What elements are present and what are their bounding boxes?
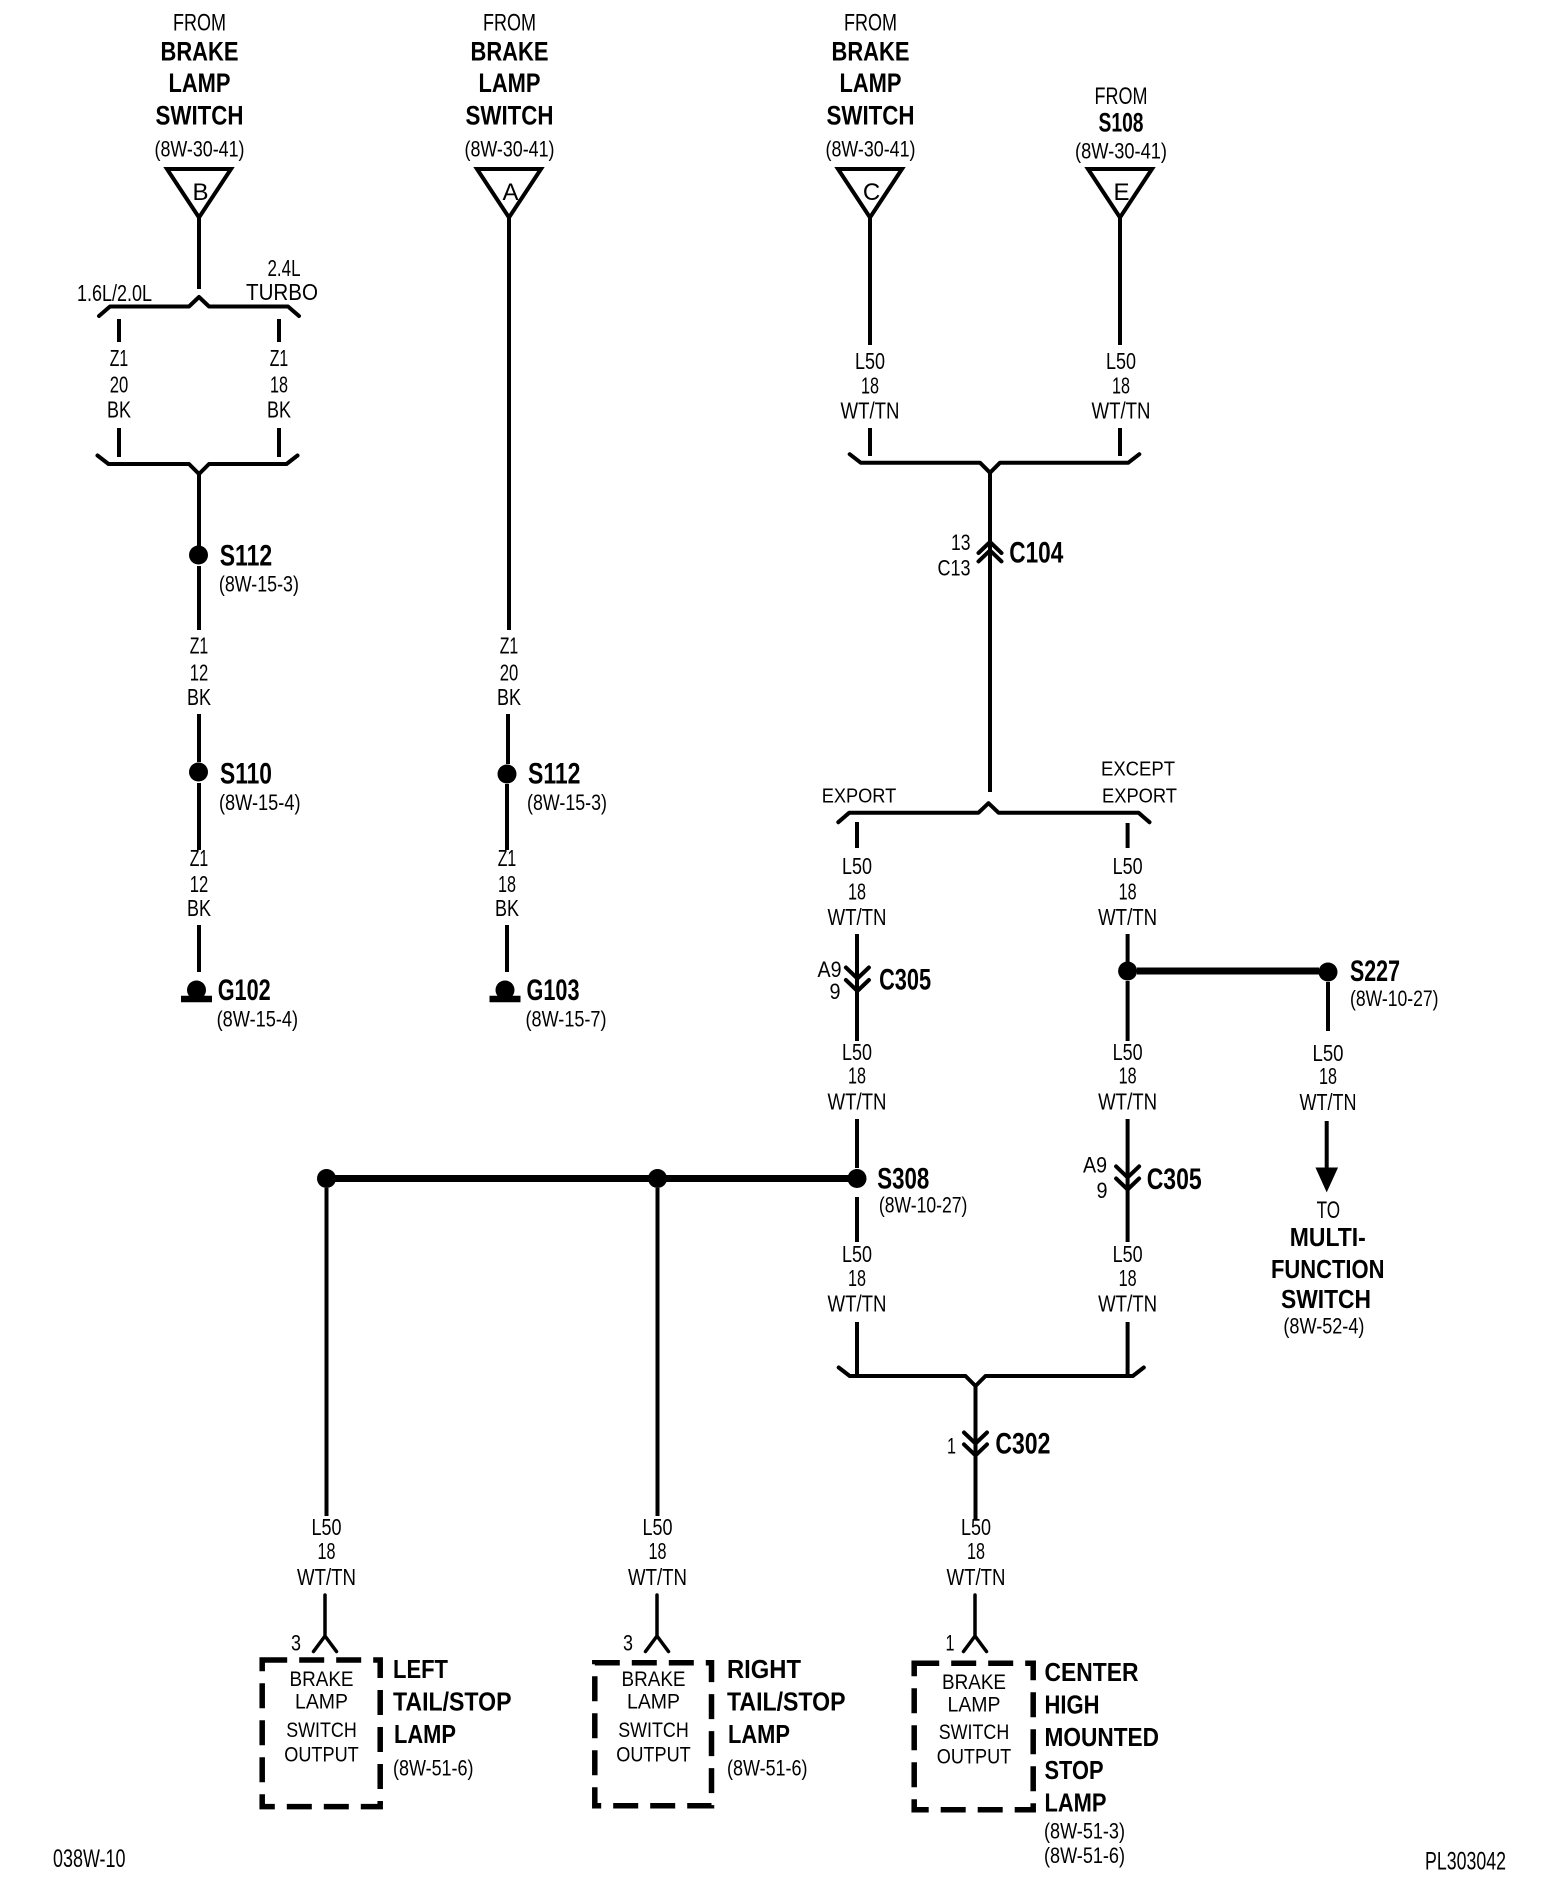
wire S227 down bbox=[1326, 982, 1330, 1031]
svg-text:C305: C305 bbox=[1147, 1163, 1202, 1196]
svg-text:L50: L50 bbox=[961, 1514, 991, 1540]
label BRAKE LAMP SWITCH OUTPUT (centre box) bbox=[937, 1670, 1012, 1769]
svg-text:OUTPUT: OUTPUT bbox=[616, 1743, 691, 1767]
wire left branch upper stub bbox=[117, 319, 121, 342]
svg-text:(8W-51-3): (8W-51-3) bbox=[1044, 1819, 1125, 1844]
svg-text:9: 9 bbox=[830, 979, 841, 1004]
label L50 18 WT/TN S227 branch bbox=[1300, 1040, 1357, 1115]
svg-text:WT/TN: WT/TN bbox=[628, 1564, 687, 1590]
wire to splice S112 col A bbox=[506, 714, 510, 764]
wire right branch lower stub bbox=[277, 428, 281, 457]
wire left junction to S308 (thick) bbox=[327, 1175, 851, 1182]
wire C below triangle bbox=[868, 218, 872, 346]
svg-text:BK: BK bbox=[495, 895, 520, 921]
label L50 18 WT/TN except upper bbox=[1098, 853, 1157, 930]
svg-text:L50: L50 bbox=[1113, 853, 1143, 879]
svg-text:1: 1 bbox=[947, 1433, 956, 1458]
svg-text:FUNCTION: FUNCTION bbox=[1271, 1256, 1385, 1284]
wire to ground G103 bbox=[505, 925, 509, 972]
label L50 18 WT/TN left tail bbox=[297, 1514, 356, 1590]
svg-text:A9: A9 bbox=[1083, 1152, 1107, 1177]
label L50 18 WT/TN centre bottom bbox=[947, 1514, 1006, 1590]
svg-text:S112: S112 bbox=[220, 540, 273, 573]
svg-text:TAIL/STOP: TAIL/STOP bbox=[393, 1689, 512, 1717]
wire A long drop bbox=[507, 218, 511, 631]
svg-text:BK: BK bbox=[107, 397, 132, 423]
svg-text:LAMP: LAMP bbox=[295, 1690, 348, 1714]
svg-text:EXPORT: EXPORT bbox=[1102, 786, 1177, 808]
svg-text:BRAKE: BRAKE bbox=[290, 1667, 354, 1691]
svg-text:18: 18 bbox=[270, 372, 288, 398]
label L50 18 WT/TN except lower bbox=[1098, 1039, 1157, 1115]
svg-text:LAMP: LAMP bbox=[627, 1690, 680, 1714]
svg-text:L50: L50 bbox=[643, 1514, 673, 1540]
svg-text:12: 12 bbox=[190, 871, 209, 897]
svg-text:RIGHT: RIGHT bbox=[727, 1656, 801, 1684]
svg-text:Z1: Z1 bbox=[500, 633, 519, 659]
svg-text:S112: S112 bbox=[528, 758, 581, 791]
wire C305 except down bbox=[1126, 1196, 1130, 1242]
svg-text:FROM: FROM bbox=[483, 10, 536, 37]
svg-text:SWITCH: SWITCH bbox=[286, 1718, 357, 1742]
wire to junction with S227 bbox=[1126, 934, 1130, 962]
connector C305 marks (export) bbox=[846, 968, 869, 992]
wire to splice S308 bbox=[855, 1119, 859, 1168]
svg-text:20: 20 bbox=[500, 660, 519, 686]
wire S112 down col A bbox=[505, 784, 509, 850]
wire C302 down bbox=[974, 1460, 978, 1520]
wire C lower stub bbox=[868, 428, 872, 456]
svg-text:FROM: FROM bbox=[173, 10, 226, 37]
svg-text:12: 12 bbox=[190, 660, 209, 686]
wire to splice S110 bbox=[197, 714, 201, 762]
wire except branch to merge bbox=[1126, 1322, 1130, 1374]
svg-text:LAMP: LAMP bbox=[728, 1721, 790, 1749]
wire merge to C302 bbox=[974, 1387, 978, 1461]
svg-text:SWITCH: SWITCH bbox=[939, 1720, 1010, 1744]
connector C305 marks (except) bbox=[1116, 1166, 1139, 1189]
svg-text:WT/TN: WT/TN bbox=[1300, 1089, 1357, 1115]
wire C305 export down bbox=[855, 997, 859, 1041]
dashed box brake lamp switch output (left) bbox=[262, 1660, 380, 1807]
svg-text:C302: C302 bbox=[995, 1427, 1050, 1460]
svg-text:BRAKE: BRAKE bbox=[622, 1667, 686, 1691]
svg-text:(8W-30-41): (8W-30-41) bbox=[1075, 139, 1167, 164]
svg-text:BRAKE: BRAKE bbox=[942, 1670, 1006, 1694]
svg-text:(8W-15-4): (8W-15-4) bbox=[217, 1007, 299, 1032]
svg-text:A: A bbox=[502, 179, 518, 206]
wire to splice S112 bbox=[197, 474, 201, 546]
splice S227 bbox=[1319, 963, 1338, 982]
svg-text:Z1: Z1 bbox=[110, 345, 129, 371]
svg-text:WT/TN: WT/TN bbox=[947, 1564, 1006, 1590]
dashed box brake lamp switch output (right) bbox=[595, 1663, 712, 1806]
svg-text:(8W-15-4): (8W-15-4) bbox=[219, 790, 301, 815]
svg-text:(8W-51-6): (8W-51-6) bbox=[727, 1756, 808, 1781]
svg-text:LEFT: LEFT bbox=[393, 1656, 448, 1684]
svg-text:EXPORT: EXPORT bbox=[822, 786, 897, 808]
svg-text:CENTER: CENTER bbox=[1045, 1659, 1139, 1687]
svg-text:Z1: Z1 bbox=[270, 345, 289, 371]
svg-text:18: 18 bbox=[848, 1265, 866, 1291]
svg-text:L50: L50 bbox=[312, 1514, 342, 1540]
wire B below triangle bbox=[197, 218, 201, 290]
svg-text:TAIL/STOP: TAIL/STOP bbox=[727, 1689, 846, 1717]
triangle connector A bbox=[477, 169, 541, 218]
label BRAKE LAMP SWITCH OUTPUT (right box) bbox=[616, 1667, 691, 1767]
svg-text:G102: G102 bbox=[218, 974, 271, 1007]
label FROM BRAKE LAMP SWITCH (8W-30-41) col A bbox=[465, 10, 555, 162]
label Z1 18 BK right branch bbox=[267, 345, 292, 423]
Y split into right tail lamp connector bbox=[646, 1595, 669, 1652]
svg-text:WT/TN: WT/TN bbox=[828, 1089, 887, 1115]
svg-text:BK: BK bbox=[497, 684, 522, 710]
svg-text:18: 18 bbox=[1119, 1265, 1137, 1291]
connector C302 marks bbox=[964, 1433, 987, 1456]
label CENTER HIGH MOUNTED STOP LAMP bbox=[1044, 1659, 1159, 1868]
merge brace to S112 bbox=[98, 456, 298, 475]
svg-text:L50: L50 bbox=[1106, 348, 1136, 374]
svg-text:L50: L50 bbox=[1113, 1039, 1143, 1065]
label L50 18 WT/TN below S308 bbox=[828, 1241, 887, 1317]
svg-text:L50: L50 bbox=[842, 1241, 872, 1267]
wire left branch lower stub bbox=[117, 428, 121, 457]
svg-text:L50: L50 bbox=[1113, 1241, 1143, 1267]
svg-text:BRAKE: BRAKE bbox=[832, 37, 910, 67]
svg-text:LAMP: LAMP bbox=[479, 68, 541, 98]
wire junction to S227 (thick) bbox=[1137, 968, 1319, 975]
svg-text:LAMP: LAMP bbox=[948, 1693, 1001, 1717]
svg-text:SWITCH: SWITCH bbox=[618, 1718, 689, 1742]
svg-text:Z1: Z1 bbox=[190, 845, 209, 871]
svg-text:Z1: Z1 bbox=[498, 845, 517, 871]
svg-text:WT/TN: WT/TN bbox=[828, 904, 887, 930]
label Z1 20 BK col A bbox=[497, 633, 522, 711]
svg-text:L50: L50 bbox=[855, 348, 885, 374]
svg-text:C13: C13 bbox=[938, 556, 971, 581]
svg-text:WT/TN: WT/TN bbox=[1092, 398, 1151, 424]
wire E below triangle bbox=[1118, 218, 1122, 346]
label FROM BRAKE LAMP SWITCH (8W-30-41) col C bbox=[826, 10, 916, 162]
svg-text:E: E bbox=[1113, 179, 1129, 206]
wire to ground G102 bbox=[197, 925, 201, 972]
svg-text:S110: S110 bbox=[220, 758, 272, 791]
Y split into left tail lamp connector bbox=[314, 1595, 337, 1652]
wire E lower stub bbox=[1118, 428, 1122, 456]
svg-text:SWITCH: SWITCH bbox=[156, 101, 244, 131]
svg-text:WT/TN: WT/TN bbox=[828, 1291, 887, 1317]
label L50 18 WT/TN right tail bbox=[628, 1514, 687, 1590]
svg-text:LAMP: LAMP bbox=[840, 68, 902, 98]
svg-text:18: 18 bbox=[1112, 373, 1130, 399]
svg-text:038W-10: 038W-10 bbox=[53, 1845, 126, 1873]
svg-text:STOP: STOP bbox=[1045, 1757, 1104, 1785]
svg-text:TURBO: TURBO bbox=[246, 279, 318, 305]
label L50 18 WT/TN col E bbox=[1092, 348, 1151, 424]
svg-text:S227: S227 bbox=[1350, 955, 1400, 988]
svg-text:C104: C104 bbox=[1009, 537, 1063, 570]
wire to C305 except bbox=[1126, 1119, 1130, 1196]
label L50 18 WT/TN export upper bbox=[828, 853, 887, 930]
svg-text:13: 13 bbox=[951, 530, 971, 555]
svg-text:(8W-10-27): (8W-10-27) bbox=[879, 1193, 968, 1218]
svg-text:FROM: FROM bbox=[1095, 83, 1148, 110]
label EXCEPT EXPORT bbox=[1101, 759, 1177, 808]
splice S110 bbox=[189, 763, 208, 782]
label FROM BRAKE LAMP SWITCH (8W-30-41) col B bbox=[155, 10, 245, 162]
svg-text:L50: L50 bbox=[842, 853, 872, 879]
svg-text:BK: BK bbox=[187, 895, 212, 921]
wire S110 down bbox=[197, 783, 201, 850]
svg-text:OUTPUT: OUTPUT bbox=[937, 1745, 1012, 1769]
svg-text:BK: BK bbox=[267, 397, 292, 423]
junction node right tail lamp bbox=[648, 1169, 667, 1188]
wire C104 to export split bbox=[988, 566, 992, 792]
svg-text:HIGH: HIGH bbox=[1045, 1692, 1100, 1720]
svg-text:20: 20 bbox=[110, 372, 129, 398]
svg-text:PL303042: PL303042 bbox=[1425, 1848, 1506, 1876]
svg-text:WT/TN: WT/TN bbox=[1098, 1089, 1157, 1115]
ground G103 bbox=[490, 981, 521, 1000]
svg-text:18: 18 bbox=[498, 871, 516, 897]
svg-text:(8W-15-3): (8W-15-3) bbox=[527, 790, 607, 815]
svg-text:BRAKE: BRAKE bbox=[161, 37, 239, 67]
label Z1 12 BK lower bbox=[187, 845, 212, 921]
label L50 18 WT/TN below C305 bbox=[1098, 1241, 1157, 1317]
svg-text:WT/TN: WT/TN bbox=[297, 1564, 356, 1590]
triangle connector E bbox=[1088, 169, 1152, 218]
svg-text:(8W-30-41): (8W-30-41) bbox=[826, 137, 916, 162]
label Z1 12 BK upper bbox=[187, 633, 212, 711]
split brace EXPORT / EXCEPT EXPORT bbox=[838, 803, 1149, 822]
svg-text:3: 3 bbox=[623, 1631, 633, 1656]
svg-text:SWITCH: SWITCH bbox=[466, 101, 554, 131]
svg-text:1: 1 bbox=[946, 1631, 955, 1656]
wire except-export stub bbox=[1126, 823, 1130, 848]
svg-text:LAMP: LAMP bbox=[1045, 1790, 1107, 1818]
svg-text:(8W-15-7): (8W-15-7) bbox=[526, 1007, 607, 1032]
svg-text:Z1: Z1 bbox=[190, 633, 209, 659]
svg-text:18: 18 bbox=[967, 1538, 985, 1564]
label BRAKE LAMP SWITCH OUTPUT (left box) bbox=[284, 1667, 359, 1767]
svg-text:18: 18 bbox=[1119, 879, 1137, 905]
svg-text:EXCEPT: EXCEPT bbox=[1101, 759, 1175, 781]
svg-text:18: 18 bbox=[649, 1538, 667, 1564]
splice S112 (col B) bbox=[189, 546, 208, 565]
svg-text:MULTI-: MULTI- bbox=[1290, 1224, 1366, 1252]
svg-text:S308: S308 bbox=[877, 1163, 929, 1196]
svg-text:18: 18 bbox=[318, 1538, 336, 1564]
label Z1 20 BK left branch bbox=[107, 345, 132, 423]
svg-text:WT/TN: WT/TN bbox=[1098, 904, 1157, 930]
label TO MULTI-FUNCTION SWITCH (8W-52-4) bbox=[1271, 1197, 1385, 1339]
label LEFT TAIL/STOP LAMP (8W-51-6) bbox=[393, 1656, 512, 1781]
wire S308 down bbox=[855, 1197, 859, 1242]
svg-text:1.6L/2.0L: 1.6L/2.0L bbox=[77, 280, 152, 306]
wire left tail drop bbox=[325, 1188, 329, 1516]
svg-text:SWITCH: SWITCH bbox=[1281, 1286, 1371, 1314]
split brace 1.6L/2.0L vs 2.4L TURBO bbox=[99, 297, 299, 316]
wire junction down bbox=[1126, 981, 1130, 1041]
wire export stub bbox=[855, 822, 859, 848]
svg-text:18: 18 bbox=[848, 1063, 866, 1089]
label Z1 18 BK col A bbox=[495, 845, 520, 921]
svg-text:FROM: FROM bbox=[844, 10, 897, 37]
svg-text:9: 9 bbox=[1097, 1178, 1108, 1203]
splice S112 (col A) bbox=[498, 765, 517, 784]
svg-text:(8W-15-3): (8W-15-3) bbox=[219, 572, 299, 597]
label L50 18 WT/TN col C bbox=[841, 348, 900, 424]
svg-text:TO: TO bbox=[1317, 1197, 1341, 1224]
svg-text:LAMP: LAMP bbox=[169, 68, 231, 98]
triangle connector C bbox=[838, 169, 902, 218]
svg-text:OUTPUT: OUTPUT bbox=[284, 1743, 359, 1767]
junction node to S227 bbox=[1118, 962, 1137, 981]
connector C104 marks bbox=[979, 542, 1002, 561]
wire S308 branch to merge bbox=[855, 1322, 859, 1374]
svg-text:G103: G103 bbox=[527, 974, 580, 1007]
svg-text:18: 18 bbox=[1319, 1063, 1337, 1089]
svg-text:C305: C305 bbox=[879, 964, 931, 997]
wire right tail drop bbox=[656, 1188, 660, 1516]
splice S308 bbox=[848, 1169, 867, 1188]
wire S112 to Z1 12 BK bbox=[197, 566, 201, 630]
svg-text:MOUNTED: MOUNTED bbox=[1045, 1724, 1160, 1752]
wire right branch upper stub bbox=[277, 319, 281, 342]
label RIGHT TAIL/STOP LAMP (8W-51-6) bbox=[727, 1656, 846, 1781]
svg-text:(8W-51-6): (8W-51-6) bbox=[1044, 1843, 1125, 1868]
svg-text:C: C bbox=[863, 179, 880, 206]
triangle connector B bbox=[167, 169, 231, 218]
label FROM S108 (8W-30-41) col E bbox=[1075, 83, 1167, 164]
junction node left tail lamp bbox=[317, 1169, 336, 1188]
svg-text:2.4L: 2.4L bbox=[268, 255, 301, 281]
svg-text:WT/TN: WT/TN bbox=[841, 398, 900, 424]
svg-text:WT/TN: WT/TN bbox=[1098, 1291, 1157, 1317]
wire to connector C104 bbox=[988, 473, 992, 566]
wire export to C305 bbox=[855, 934, 859, 997]
svg-text:(8W-52-4): (8W-52-4) bbox=[1283, 1314, 1364, 1339]
svg-text:(8W-30-41): (8W-30-41) bbox=[155, 137, 245, 162]
dashed box brake lamp switch output (centre) bbox=[914, 1663, 1033, 1810]
svg-text:3: 3 bbox=[291, 1631, 301, 1656]
svg-text:S108: S108 bbox=[1099, 108, 1144, 138]
svg-text:18: 18 bbox=[848, 879, 866, 905]
label L50 18 WT/TN export lower bbox=[828, 1039, 887, 1115]
Y split into CHMSL connector bbox=[964, 1595, 987, 1652]
merge brace C+E to C104 bbox=[850, 454, 1140, 473]
svg-text:(8W-51-6): (8W-51-6) bbox=[393, 1756, 474, 1781]
svg-text:18: 18 bbox=[1119, 1063, 1137, 1089]
svg-text:(8W-30-41): (8W-30-41) bbox=[465, 137, 555, 162]
ground G102 bbox=[181, 981, 212, 1000]
svg-text:SWITCH: SWITCH bbox=[827, 101, 915, 131]
svg-text:L50: L50 bbox=[842, 1039, 872, 1065]
svg-text:BRAKE: BRAKE bbox=[471, 37, 549, 67]
svg-text:(8W-10-27): (8W-10-27) bbox=[1350, 986, 1439, 1011]
arrow to multi-function switch bbox=[1317, 1121, 1337, 1190]
svg-text:LAMP: LAMP bbox=[394, 1721, 456, 1749]
svg-text:BK: BK bbox=[187, 684, 212, 710]
svg-text:18: 18 bbox=[861, 373, 879, 399]
merge brace S308+except to C302 bbox=[839, 1368, 1144, 1387]
svg-text:B: B bbox=[192, 179, 208, 206]
